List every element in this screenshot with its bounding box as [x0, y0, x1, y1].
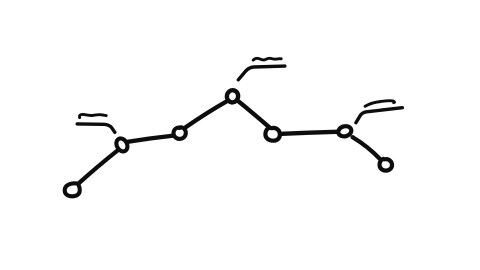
- annotation C tick line: [356, 108, 402, 123]
- node N3: [173, 127, 185, 139]
- annotation A tick line: [77, 124, 115, 132]
- annotation C squiggle (above node N6): [365, 101, 394, 107]
- wire segment S6 node6-node7: [353, 137, 381, 159]
- node N4 (peak): [226, 89, 239, 103]
- annotation A squiggle (above node N2): [79, 114, 106, 117]
- wire segment S4 node4-node5: [239, 102, 269, 128]
- node N1 (leftmost point): [65, 183, 80, 196]
- node N5: [265, 128, 280, 141]
- annotation B tick line: [238, 66, 284, 80]
- wire segment S2 node2-node3: [128, 136, 174, 142]
- node N2: [114, 137, 129, 154]
- annotation B squiggle (above peak node N4): [253, 58, 281, 60]
- node N7 (end point): [380, 159, 392, 171]
- node N6: [337, 125, 352, 138]
- wire segment S5 node5-node6: [282, 132, 337, 134]
- wire segment S3 node3-node4: [186, 102, 226, 128]
- wire segment S1 node1-node2: [79, 151, 118, 184]
